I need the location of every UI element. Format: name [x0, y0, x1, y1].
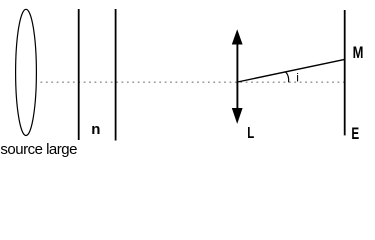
- lens arrowhead top: [232, 29, 243, 44]
- svg-text:source large: source large: [0, 141, 77, 158]
- lens L double arrow shaft: [236, 42, 238, 110]
- angle i arc: [286, 72, 289, 82]
- screen E line: [344, 10, 346, 135]
- svg-text:L: L: [247, 125, 254, 142]
- svg-text:M: M: [353, 44, 364, 62]
- slit plate line 1: [78, 9, 80, 140]
- ray from lens to M: [238, 59, 346, 82]
- svg-text:E: E: [351, 125, 359, 143]
- svg-text:n: n: [91, 121, 100, 138]
- source ellipse (large source): [16, 9, 37, 135]
- optical axis (dotted): [41, 81, 345, 83]
- slit plate line 2: [115, 9, 117, 141]
- lens arrowhead bottom: [232, 108, 243, 124]
- svg-text:i: i: [296, 70, 299, 84]
